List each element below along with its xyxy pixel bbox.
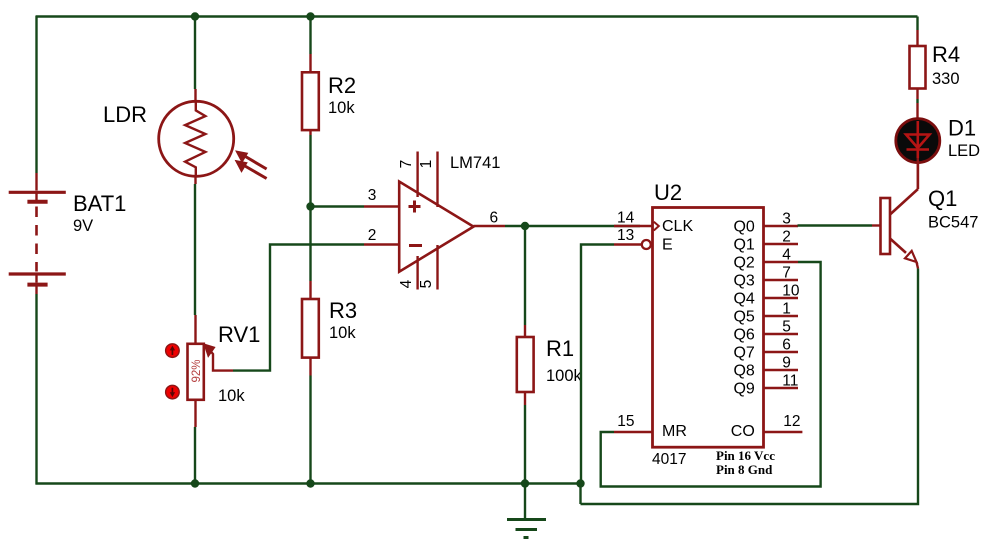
svg-text:LDR: LDR xyxy=(103,102,147,127)
wire op-amp pin2 red stub xyxy=(364,243,399,245)
svg-text:1: 1 xyxy=(782,301,791,318)
U2 pin1 Q5 stub xyxy=(764,315,799,317)
wire R4 to LED green segment xyxy=(916,99,918,103)
op-amp pin 1 stub xyxy=(436,152,438,208)
svg-text:MR: MR xyxy=(662,423,687,440)
svg-text:Q8: Q8 xyxy=(733,363,754,380)
svg-text:9: 9 xyxy=(782,355,791,372)
Q1 emitter arrowhead xyxy=(905,251,917,262)
wire junction to op-amp non-inverting input xyxy=(311,205,365,207)
resistor R2 xyxy=(302,54,319,135)
wire RV1 wiper to op-amp inverting input xyxy=(233,245,364,371)
U2 pin3 Q0 stub xyxy=(764,225,799,227)
svg-text:Q4: Q4 xyxy=(733,291,754,308)
U2 pin15 MR stub xyxy=(614,431,653,433)
svg-text:10k: 10k xyxy=(329,324,356,342)
svg-text:U2: U2 xyxy=(654,180,682,205)
svg-text:Q1: Q1 xyxy=(733,237,754,254)
wire E to bottom junction xyxy=(581,245,614,483)
U2 pin7 Q3 stub xyxy=(764,279,799,281)
svg-text:5: 5 xyxy=(782,319,791,336)
svg-text:Q7: Q7 xyxy=(733,345,754,362)
junction top rail / LDR xyxy=(191,12,199,20)
wire R2 to R3 / pin3 node xyxy=(309,135,311,281)
wire LED top red xyxy=(916,103,918,118)
op-amp pin 5 stub xyxy=(436,245,438,290)
RV1 down button xyxy=(166,385,180,399)
svg-text:4: 4 xyxy=(398,279,415,288)
U2 pin5 Q6 stub xyxy=(764,333,799,335)
svg-text:Q9: Q9 xyxy=(733,381,754,398)
op-amp minus sign xyxy=(409,244,422,247)
svg-text:R1: R1 xyxy=(546,336,574,361)
LDR light arrow 2 xyxy=(236,161,267,179)
wire junction down to R1 xyxy=(524,226,526,325)
U2 pin13 E circle xyxy=(642,240,651,249)
IC U2 4017 box xyxy=(653,208,764,448)
svg-text:6: 6 xyxy=(490,210,499,227)
wire top rail xyxy=(36,15,918,17)
wire output to CLK xyxy=(505,225,640,227)
svg-text:Q3: Q3 xyxy=(733,273,754,290)
wire MR to Q2 feedback loop xyxy=(601,262,821,487)
LDR light arrow 1 xyxy=(236,151,267,169)
svg-text:LM741: LM741 xyxy=(450,154,500,172)
U2 CLK clock arrow xyxy=(654,222,659,231)
svg-text:10k: 10k xyxy=(218,387,245,405)
RV1 up button xyxy=(166,344,180,358)
svg-text:14: 14 xyxy=(617,210,635,227)
junction bottom rail / RV1 xyxy=(191,479,199,487)
wire op-amp output red stub xyxy=(474,225,506,227)
svg-text:7: 7 xyxy=(782,265,791,282)
svg-text:LED: LED xyxy=(948,142,980,160)
svg-text:CLK: CLK xyxy=(662,218,693,235)
svg-text:3: 3 xyxy=(782,211,791,228)
svg-text:Pin 8 Gnd: Pin 8 Gnd xyxy=(716,462,773,477)
svg-text:5: 5 xyxy=(418,280,435,289)
ground xyxy=(507,484,546,538)
svg-text:100k: 100k xyxy=(546,367,583,385)
wire left rail lower (battery bottom to ground rail) xyxy=(35,294,37,485)
junction bottom rail / E wire xyxy=(576,479,584,487)
battery BAT1 xyxy=(9,173,66,294)
svg-text:Q2: Q2 xyxy=(733,255,754,272)
wire RV1 bottom to ground rail xyxy=(194,427,196,484)
LED D1 xyxy=(896,119,940,163)
svg-text:D1: D1 xyxy=(948,116,976,141)
wire top rail to R4 xyxy=(916,17,918,31)
svg-text:15: 15 xyxy=(617,413,634,430)
U2 pin13 E stub xyxy=(614,243,642,245)
U2 pin6 Q7 stub xyxy=(764,351,799,353)
svg-text:9V: 9V xyxy=(73,217,93,235)
svg-text:13: 13 xyxy=(617,227,634,244)
svg-text:Q5: Q5 xyxy=(733,309,754,326)
svg-text:1: 1 xyxy=(418,160,435,169)
potentiometer RV1 xyxy=(188,315,204,427)
wire R3 to ground rail xyxy=(309,376,311,484)
svg-text:Q1: Q1 xyxy=(928,186,957,211)
svg-text:CO: CO xyxy=(731,423,755,440)
svg-text:7: 7 xyxy=(398,160,415,169)
svg-text:3: 3 xyxy=(368,187,377,204)
svg-text:12: 12 xyxy=(783,413,800,430)
junction top rail / R2 xyxy=(306,12,314,20)
svg-text:330: 330 xyxy=(932,70,960,88)
resistor R1 xyxy=(517,325,534,405)
wire left rail upper (battery top) xyxy=(35,16,37,174)
RV1 wiper arrow xyxy=(204,344,233,371)
svg-text:R2: R2 xyxy=(328,73,356,98)
U2 pin2 Q1 stub xyxy=(764,243,799,245)
U2 pin12 CO stub xyxy=(764,431,803,433)
svg-text:BC547: BC547 xyxy=(928,214,978,232)
U2 pin11 Q9 stub xyxy=(764,387,799,389)
svg-text:R3: R3 xyxy=(329,298,357,323)
U2 pin10 Q4 stub xyxy=(764,297,799,299)
wire R1 to ground rail xyxy=(524,405,526,484)
resistor R3 xyxy=(302,281,319,376)
svg-text:92%: 92% xyxy=(191,359,203,382)
svg-text:6: 6 xyxy=(782,337,791,354)
U2 pin14 CLK stub xyxy=(614,225,653,227)
svg-text:Pin 16 Vcc: Pin 16 Vcc xyxy=(716,448,775,463)
svg-text:Q0: Q0 xyxy=(733,219,754,236)
svg-text:Q6: Q6 xyxy=(733,327,754,344)
wire Q0 to Q1 base xyxy=(798,224,873,226)
junction R2-R3 / op-amp pin3 xyxy=(306,202,314,210)
wire op-amp pin3 red stub xyxy=(364,205,399,207)
op-amp plus sign xyxy=(409,201,421,213)
wire LED to collector xyxy=(917,158,919,189)
op-amp pin 7 stub xyxy=(416,152,418,198)
op-amp pin 4 stub xyxy=(416,256,418,290)
svg-text:10: 10 xyxy=(782,283,800,300)
op-amp U1 LM741 xyxy=(399,182,473,272)
svg-text:10k: 10k xyxy=(328,99,355,117)
svg-text:RV1: RV1 xyxy=(218,322,260,347)
U2 pin4 Q2 stub xyxy=(764,261,799,263)
wire LDR branch top xyxy=(194,16,196,90)
svg-text:R4: R4 xyxy=(932,42,960,67)
svg-text:4017: 4017 xyxy=(652,451,686,468)
LDR photoresistor xyxy=(159,89,234,184)
svg-text:BAT1: BAT1 xyxy=(73,191,126,216)
wire base red stub xyxy=(872,224,881,226)
svg-text:2: 2 xyxy=(368,227,377,244)
junction bottom rail / R1 / ground xyxy=(521,479,529,487)
svg-text:E: E xyxy=(662,237,673,254)
wire bottom rail xyxy=(36,482,581,484)
resistor R4 xyxy=(910,30,926,99)
junction output / R1 xyxy=(521,222,529,230)
U2 pin9 Q8 stub xyxy=(764,369,799,371)
wire emitter to bottom xyxy=(581,269,919,505)
wire LDR to RV1 xyxy=(194,184,196,315)
svg-text:11: 11 xyxy=(782,373,798,390)
junction bottom rail / R3 xyxy=(306,479,314,487)
wire R2 branch top xyxy=(309,16,311,55)
svg-text:2: 2 xyxy=(782,229,791,246)
svg-text:4: 4 xyxy=(782,247,791,264)
transistor Q1 BC547 xyxy=(881,158,919,269)
wire bottom jog at E junction xyxy=(579,484,581,505)
